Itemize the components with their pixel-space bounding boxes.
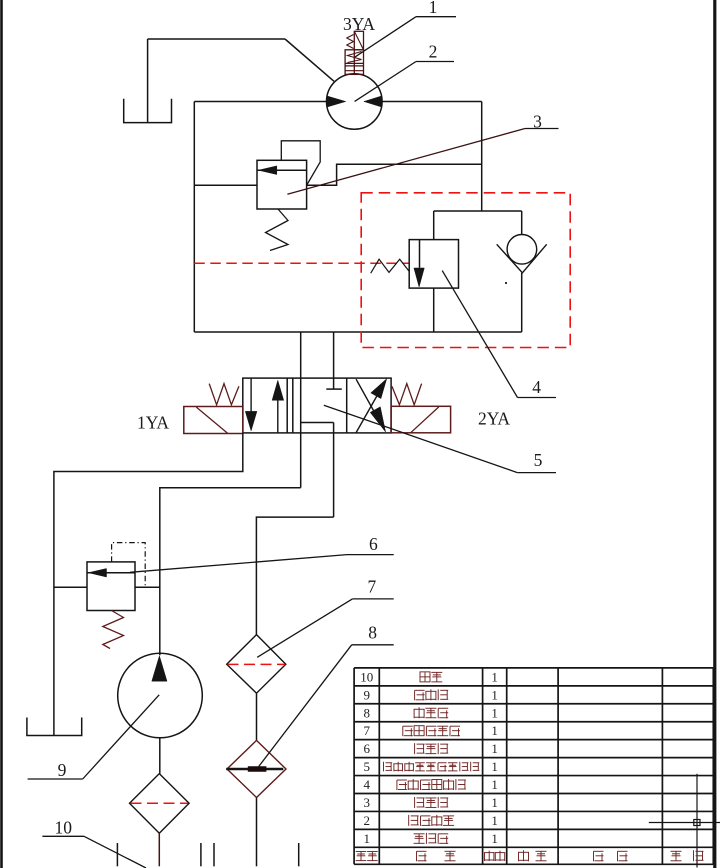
svg-text:6: 6 — [369, 534, 378, 554]
svg-text:8: 8 — [368, 623, 377, 643]
svg-text:7: 7 — [368, 577, 377, 597]
svg-text:1: 1 — [491, 813, 498, 828]
svg-text:1: 1 — [491, 795, 498, 810]
svg-text:1: 1 — [491, 687, 498, 702]
svg-text:5: 5 — [363, 759, 370, 774]
svg-text:1: 1 — [491, 741, 498, 756]
svg-text:1: 1 — [491, 705, 498, 720]
svg-text:2YA: 2YA — [478, 409, 510, 429]
svg-text:1: 1 — [429, 0, 438, 17]
svg-text:1: 1 — [491, 777, 498, 792]
svg-text:1: 1 — [491, 723, 498, 738]
svg-text:5: 5 — [534, 450, 543, 470]
svg-text:3: 3 — [363, 795, 370, 810]
svg-text:1: 1 — [363, 831, 370, 846]
svg-text:2: 2 — [429, 42, 438, 62]
svg-text:9: 9 — [58, 760, 67, 780]
svg-text:6: 6 — [363, 741, 370, 756]
svg-text:2: 2 — [363, 813, 370, 828]
svg-text:3: 3 — [533, 112, 542, 132]
svg-text:10: 10 — [55, 818, 73, 838]
svg-text:10: 10 — [360, 669, 373, 684]
svg-text:1: 1 — [491, 759, 498, 774]
svg-text:1: 1 — [491, 831, 498, 846]
svg-text:7: 7 — [363, 723, 370, 738]
svg-text:4: 4 — [363, 777, 370, 792]
svg-text:8: 8 — [363, 705, 370, 720]
svg-text:1YA: 1YA — [137, 413, 169, 433]
svg-text:1: 1 — [491, 669, 498, 684]
svg-text:9: 9 — [363, 687, 370, 702]
svg-text:4: 4 — [532, 377, 541, 397]
